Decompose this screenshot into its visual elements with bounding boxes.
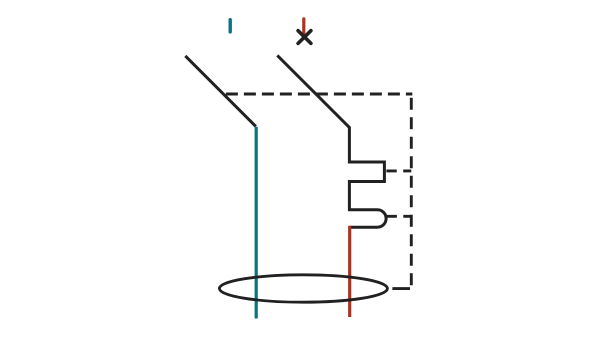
X marker	[298, 31, 311, 44]
trip linkage dashed vertical	[410, 98, 413, 286]
left pole contact blade	[185, 56, 256, 127]
trip linkage dashed horizontal	[226, 93, 412, 96]
dashed stub to magnetic release	[386, 215, 411, 218]
motor winding ellipse	[219, 275, 387, 302]
terminal tick L2 (red)	[302, 19, 305, 33]
left pole wire (teal)	[255, 127, 258, 319]
right pole wire (red)	[348, 226, 351, 317]
terminal tick L1 (teal)	[228, 20, 231, 32]
right pole contact blade with thermal + magnetic releases	[277, 55, 386, 227]
dashed stub to motor	[392, 287, 410, 290]
dashed stub to thermal release	[386, 169, 411, 172]
